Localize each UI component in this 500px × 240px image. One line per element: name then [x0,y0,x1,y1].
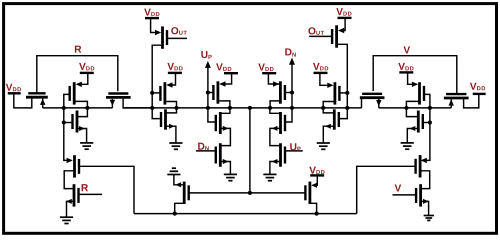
transistor M22 (PMOS) [420,82,425,104]
transistor M17 (NMOS) [334,109,339,129]
node U_P gate stub [286,150,303,152]
arrow M20 source (left) [311,183,317,188]
arrow M16 source (right) [327,83,333,88]
wire M18 drain / feed line C4 [337,44,348,118]
node O_UT right stub [309,35,331,37]
arrow M13 source (right) [273,81,279,86]
wire M26 arrow lead [430,99,451,108]
wire M19 gate [189,192,250,194]
node U_P gate junction [206,90,210,94]
node V gate label [395,184,402,191]
wire M8 gate [152,92,160,94]
transistor M18 (output PMOS) [332,25,337,47]
wire V_DD to M1 source [14,94,32,108]
wire M24 drain to M25 [420,171,430,189]
arrow M5 source (right) [67,158,73,163]
transistor M14 (NMOS) [281,112,286,134]
node C1 gate junction [150,91,154,95]
power V_DD M20 [309,167,324,176]
wire D_N line [285,64,292,123]
wire V_DD to M16 source [320,74,332,85]
wire M5 drain to M6 [64,171,74,189]
wire M10 drain [219,101,230,108]
arrow M1 source (up) [40,99,45,105]
arrow M3 source (left) [76,82,82,87]
ground M19 (flipped) [167,168,180,174]
wire U_P line [208,67,216,123]
wire center line [249,108,251,193]
wire M20 drain to bottom rail [310,203,317,213]
node D_N label [285,48,295,56]
wire M21 left lead [361,99,363,108]
node R gate stub [79,193,103,195]
transistor M16 (PMOS) [335,82,340,104]
wire R net top [37,56,118,93]
transistor M25 (V gate) [416,184,421,206]
wire M13 drain [270,101,280,108]
wire M7 drain / feed line C1 [152,45,162,118]
arrow M4 drain (right) [79,126,85,131]
wire M23 gate [423,122,430,124]
wire bottom rail [134,213,357,215]
arrow M2 source (down) [110,100,115,106]
transistor M1 (pass, left) [26,93,48,97]
arrow M8 source (left) [166,82,172,87]
ground M6 [60,217,73,223]
wire M13 gate [285,92,292,94]
transistor M19 (NMOS) [184,182,189,204]
wire V_DD to M8 source [168,74,176,85]
wire M8 drain [166,102,176,108]
transistor M11 (NMOS) [216,112,221,134]
wire rail center-right [250,107,362,109]
node C4 rail junction [345,106,349,110]
wire feed node J vertical [422,94,430,160]
transistor M9 (NMOS) [161,109,166,129]
wire M14 source [270,108,280,113]
node V gate stub [393,194,417,196]
wire M15 source to ground [270,162,280,175]
wire M1 drain to node A [43,99,64,108]
power V_DD M22 [398,63,413,73]
wire M17 drain to ground [323,126,334,143]
arrow M15 source (left) [272,159,278,164]
node R gate label [82,184,88,191]
transistor M13 (PMOS) [280,81,285,103]
node O_UT stub [168,37,187,39]
ground M4 [80,143,93,149]
node center bottom junction [248,191,252,195]
wire M11 drain [221,128,231,145]
wire M16 drain [323,102,333,108]
wire M21 arrow lead [379,99,407,108]
node D_N rail junction [290,106,294,110]
node D_N gate label [198,143,208,151]
transistor M6 (R gate) [74,184,79,206]
ground M23 [401,143,414,149]
wire M19 source [174,175,183,185]
wire M24 gate to bottom rail [357,166,416,213]
wire M9 drain to ground [166,126,176,143]
node A junction [62,106,66,110]
node D_N gate stub [196,150,215,152]
arrow M6 source (left) [66,199,72,204]
node D_N gate junction [290,90,294,94]
transistor M15 (NMOS U_P) [281,143,286,167]
wire M4 drain to ground [78,129,87,143]
transistor M24 [416,155,421,177]
wire M25 source to ground [421,201,429,215]
arrow M17 drain (left) [325,124,331,129]
arrow M25 source (right) [423,199,429,204]
arrow M23 drain (left) [410,126,416,131]
arrow D_N (up) [289,58,295,65]
power V_DD M16 [313,63,328,73]
wire M23 source [406,108,417,117]
node O_UT right label [308,27,324,35]
node C4 gate junction [345,91,349,95]
transistor M2 (pass, inner-left) [106,94,131,98]
node J junction [428,106,432,110]
transistor M7 (output PMOS) [163,26,168,48]
arrow M14 drain (left) [272,126,278,131]
node U_P gate label [290,143,300,151]
transistor M5 [75,155,80,177]
wire V_DD to M18 source [341,19,346,31]
arrow M26 source (up) [449,99,454,105]
arrow M12 source (right) [223,159,229,164]
wire M9 source [166,108,177,113]
node E junction [228,106,232,110]
arrow U_P (up) [205,61,211,68]
wire M16 gate [339,92,347,94]
wire M22 drain [406,101,418,108]
node B junction [85,106,89,110]
wire M4 source [78,108,88,117]
wire M26 right lead to V_DD [464,95,479,108]
arrow M11 drain (right) [223,126,229,131]
transistor M10 (PMOS) [213,81,218,103]
wire rail J-K [406,107,430,109]
power V_DD M13 [258,63,276,73]
transistor M8 (PMOS) [160,82,165,104]
wire M17 source [323,108,334,113]
arrow M18 source (left) [338,28,344,33]
node C1 rail junction [150,106,154,110]
wire V_DD to M22 source [408,74,417,85]
wire V_DD to M10 source [221,74,232,84]
transistor M3 (PMOS) [70,82,75,104]
wire rail A-B [64,107,88,109]
wire M12 source to ground [221,162,231,175]
ground M12 [224,174,237,180]
node H junction [173,212,177,216]
arrow M24 source (left) [421,158,427,163]
power V_DD M3 [79,63,94,73]
power V_DD M18 [336,8,351,18]
ground M25 [424,216,434,221]
node R (label) [75,46,81,53]
wire V_DD to M7 source [151,19,159,33]
node K junction [404,106,408,110]
power V_DD far-left [6,84,21,94]
node U_P rail junction [206,106,210,110]
node V (label) [403,46,410,53]
wire M2 arrow lead [87,99,112,108]
power V_DD M8 [167,63,182,73]
arrow M21 source (down) [376,100,381,106]
wire feed node A vertical [64,94,72,160]
arrow M7 source (right) [155,30,161,35]
node F junction [268,106,272,110]
node J junction 2 [428,120,432,124]
node U_P label [201,51,211,59]
node A junction 2 [62,120,66,124]
wire M2 right lead [123,99,152,108]
transistor M12 (NMOS D_N) [216,143,221,167]
node G junction [321,106,325,110]
wire M23 drain to ground [407,129,418,143]
node D junction [174,106,178,110]
transistor M23 (PMOS) [418,111,423,133]
wire M11 source [221,108,230,113]
wire M6 source to ground [67,201,75,217]
transistor M4 (PMOS) [73,111,78,133]
node I junction [315,212,319,216]
arrow M9 drain (right) [169,124,175,129]
wire M20 gate [250,192,306,194]
wire V_DD to M3 source [77,74,88,84]
arrow M19 source (left) [175,182,181,187]
transistor M20 (PMOS) [305,182,310,204]
wire M5 gate to bottom rail [79,166,134,213]
ground M15 [263,174,276,180]
ground M17 [317,143,330,149]
ground M9 [169,143,182,149]
wire V_DD to M20 source [313,176,318,185]
wire M4 gate [64,122,73,124]
arrow M22 source (right) [412,82,418,87]
power V_DD M10 [216,63,238,73]
node O_UT label [171,27,187,35]
node center rail junction [248,106,252,110]
wire rail left-center [123,107,250,109]
power V_DD M7 [144,9,159,19]
wire M3 drain [76,101,88,108]
wire M10 gate [208,92,214,94]
transistor M26 (pass, far right) [444,94,469,98]
wire M14 drain [270,128,280,145]
wire V net top [373,56,457,93]
wire V_DD to M13 source [268,74,279,84]
arrow M10 source (left) [219,81,225,86]
transistor M21 (pass, inner-right) [360,94,385,98]
power V_DD far-right [470,83,486,94]
wire M19 drain to bottom rail [175,203,185,213]
